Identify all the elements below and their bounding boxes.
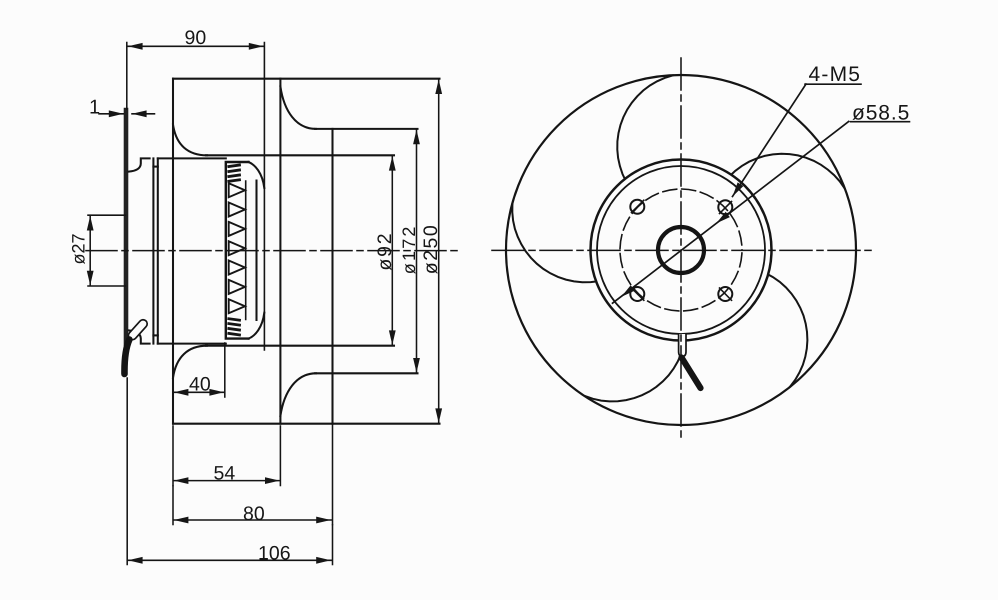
motor bottom edge bbox=[158, 343, 226, 345]
O58.5 arrowhead outer bbox=[619, 285, 635, 299]
svg-text:ø92: ø92 bbox=[374, 232, 396, 271]
band inner vertical 2 bbox=[255, 181, 257, 321]
svg-text:ø250: ø250 bbox=[420, 224, 442, 274]
O58.5 underline bbox=[851, 121, 910, 123]
svg-text:106: 106 bbox=[258, 543, 291, 565]
svg-text:1: 1 bbox=[89, 97, 100, 119]
leader O58.5 diameter line bbox=[613, 122, 849, 304]
cable left view (thick) bbox=[124, 340, 129, 375]
cable gland stub left view bbox=[127, 318, 149, 341]
housing bottom edge bbox=[173, 423, 440, 425]
dim 80 line bbox=[173, 519, 331, 521]
hub inner circle bbox=[597, 166, 765, 334]
band top-right slant bbox=[249, 162, 265, 188]
dim 106 line bbox=[128, 559, 332, 561]
band hatch ticks top bbox=[229, 165, 240, 181]
bolt hole BL bbox=[630, 287, 644, 301]
impeller outer rim circle bbox=[506, 75, 856, 425]
hole slash TL bbox=[632, 200, 644, 212]
dim 80 ext left bbox=[172, 486, 174, 525]
blade 4 bbox=[766, 273, 808, 386]
hole slash BL bbox=[632, 288, 644, 300]
dim 40 ext bbox=[224, 343, 226, 397]
dim O27 ext bottom bbox=[88, 285, 125, 287]
housing bottom-right scroll curve bbox=[280, 373, 316, 416]
dim 106 ext right bbox=[332, 525, 334, 565]
motor top edge bbox=[158, 157, 226, 159]
band hatch ticks bottom bbox=[229, 319, 240, 335]
dim 54 ext left bbox=[172, 426, 174, 486]
centerline right view vertical bbox=[680, 58, 682, 437]
O58.5 arrowhead inner bbox=[714, 212, 730, 226]
band bottom-right slant bbox=[249, 313, 265, 339]
dim 54 ext right bbox=[279, 426, 281, 486]
svg-text:40: 40 bbox=[189, 374, 211, 396]
mounting plate (thick) bbox=[124, 110, 129, 344]
dim O27 ext top bbox=[88, 214, 125, 216]
svg-text:80: 80 bbox=[243, 503, 265, 525]
svg-text:ø27: ø27 bbox=[69, 233, 89, 264]
hub outer circle bbox=[591, 160, 772, 341]
dim 80 ext right bbox=[332, 424, 334, 525]
cable gland stub right view bbox=[679, 334, 686, 357]
dim 40 line bbox=[173, 391, 224, 393]
svg-text:ø58.5: ø58.5 bbox=[852, 102, 910, 125]
bolt hole BR bbox=[718, 287, 732, 301]
housing interior vertical bbox=[279, 79, 281, 424]
housing top-left scroll curve bbox=[173, 125, 207, 156]
blade 1 bbox=[617, 75, 672, 181]
blade triangles bbox=[229, 183, 245, 313]
band inner vertical 1 bbox=[245, 181, 247, 320]
O172 level line bottom bbox=[315, 372, 418, 374]
dim 54 line bbox=[173, 480, 280, 482]
slot cap top bbox=[153, 166, 157, 168]
motor rear bell top bbox=[129, 158, 150, 171]
svg-text:ø172: ø172 bbox=[399, 224, 419, 274]
hole slash TR bbox=[720, 202, 732, 214]
centerline right view horizontal bbox=[492, 249, 872, 251]
band right vertical / 90 ext structural bbox=[263, 43, 265, 351]
dim O250 line bbox=[438, 79, 440, 423]
dim O172 line bbox=[416, 129, 418, 373]
svg-text:54: 54 bbox=[214, 463, 236, 485]
bell right edge bbox=[152, 158, 154, 343]
blade 5 bbox=[729, 154, 844, 188]
blade 3 bbox=[585, 338, 685, 402]
motor left edge bbox=[157, 158, 159, 343]
housing inner line (O92 level bottom) bbox=[206, 345, 394, 347]
dim 90 line bbox=[128, 45, 264, 47]
impeller band outline bbox=[226, 162, 249, 339]
svg-text:90: 90 bbox=[185, 27, 207, 49]
dim O92 line bbox=[391, 156, 393, 346]
shaft bore circle (thick) bbox=[658, 227, 704, 273]
bolt hole TR bbox=[718, 200, 732, 214]
svg-text:4-M5: 4-M5 bbox=[809, 63, 862, 86]
cable right view thick bbox=[682, 358, 701, 389]
housing top edge bbox=[173, 78, 440, 80]
bolt hole TL bbox=[630, 200, 644, 214]
dim 90 extension left bbox=[126, 43, 128, 110]
housing top-right scroll curve bbox=[280, 87, 316, 129]
housing left edge bbox=[172, 79, 174, 424]
slot cap bottom bbox=[153, 334, 157, 336]
dim 1 line left part bbox=[99, 113, 123, 115]
dim 106 ext left bbox=[126, 378, 128, 565]
housing bottom-left scroll curve bbox=[173, 346, 207, 378]
4-M5 underline bbox=[805, 83, 861, 85]
bolt circle (dashed) bbox=[620, 189, 742, 311]
hole slash BR bbox=[720, 288, 732, 300]
dim 1 line right part bbox=[132, 113, 155, 115]
dim O27 line bbox=[89, 216, 91, 286]
volute inner vertical bbox=[331, 129, 333, 424]
motor rear bell bottom bbox=[129, 330, 150, 343]
centerline left view bbox=[86, 250, 458, 252]
housing inner line (O92 level top) bbox=[206, 154, 394, 156]
leader 4-M5 bbox=[733, 84, 807, 197]
blade 2 bbox=[512, 204, 599, 282]
O172 level line top bbox=[315, 128, 418, 130]
